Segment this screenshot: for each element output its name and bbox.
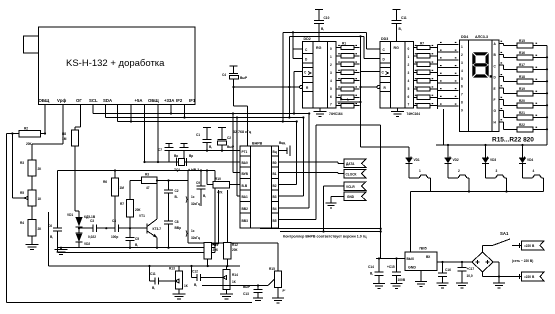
svg-text:С7: С7 <box>158 148 162 152</box>
svg-text:4: 4 <box>533 169 535 173</box>
svg-text:ОБЩ: ОБЩ <box>148 98 159 103</box>
svg-text:0,022: 0,022 <box>88 235 96 239</box>
svg-text:6: 6 <box>408 95 410 99</box>
svg-text:+ НР-2: + НР-2 <box>188 168 199 172</box>
svg-text:ВВр: ВВр <box>175 226 182 230</box>
svg-text:IF2: IF2 <box>176 98 183 103</box>
svg-text:С13: С13 <box>243 292 249 296</box>
svg-text:5: 5 <box>461 77 463 81</box>
svg-text:R20: R20 <box>519 99 525 103</box>
svg-text:100р: 100р <box>111 235 118 239</box>
svg-text:VT1: VT1 <box>139 214 145 218</box>
svg-text:В,: В, <box>209 145 212 149</box>
svg-text:R7: R7 <box>420 41 424 45</box>
svg-text:ДАТА: ДАТА <box>346 162 355 166</box>
svg-text:В3: В3 <box>273 195 277 199</box>
svg-text:20К: 20К <box>232 248 238 252</box>
svg-text:С14: С14 <box>368 265 374 269</box>
svg-text:ВыР: ВыР <box>227 145 235 149</box>
svg-text:R10: R10 <box>215 177 221 181</box>
svg-text:1М: 1М <box>62 137 67 141</box>
svg-text:ВЫХ: ВЫХ <box>407 257 415 261</box>
svg-text:2: 2 <box>330 63 332 67</box>
svg-text:ОБЩ: ОБЩ <box>39 98 50 103</box>
svg-text:С12: С12 <box>192 270 198 274</box>
svg-text:4: 4 <box>330 79 332 83</box>
svg-text:R22: R22 <box>519 123 525 127</box>
svg-text:1с: 1с <box>191 195 195 199</box>
svg-text:R8: R8 <box>62 132 66 136</box>
svg-text:КТ3-7: КТ3-7 <box>153 227 162 231</box>
svg-text:47К: 47К <box>217 191 223 195</box>
svg-text:6: 6 <box>461 85 463 89</box>
svg-text:VD4: VD4 <box>527 158 533 162</box>
svg-text:ОГ: ОГ <box>76 98 82 103</box>
svg-text:10,0: 10,0 <box>467 274 473 278</box>
svg-text:(сеть ~ 220 В): (сеть ~ 220 В) <box>512 259 533 263</box>
svg-text:VD1: VD1 <box>414 158 420 162</box>
svg-text:СLОСК: СLОСК <box>346 172 357 176</box>
svg-text:VD2: VD2 <box>453 158 459 162</box>
svg-text:VСLR: VСLR <box>346 185 355 189</box>
svg-text:R7: R7 <box>120 202 124 206</box>
svg-text:3: 3 <box>461 61 463 65</box>
svg-text:С8: С8 <box>175 220 179 224</box>
svg-text:0: 0 <box>330 47 332 51</box>
svg-text:7: 7 <box>461 93 463 97</box>
svg-text:С9: С9 <box>196 181 200 185</box>
svg-text:R6: R6 <box>103 180 107 184</box>
svg-text:Контроллер ВНРВ соответствует: Контроллер ВНРВ соответствует версии 1.0… <box>283 235 367 239</box>
svg-text:SCL: SCL <box>89 98 98 103</box>
svg-text:С2: С2 <box>227 136 231 140</box>
svg-text:3: 3 <box>408 71 410 75</box>
svg-text:4: 4 <box>461 69 463 73</box>
svg-text:3: 3 <box>496 169 498 173</box>
svg-text:С11: С11 <box>150 272 156 276</box>
svg-text:DD3: DD3 <box>381 37 388 41</box>
svg-text:1: 1 <box>330 55 332 59</box>
svg-text:R13: R13 <box>169 267 175 271</box>
svg-text:VD3: VD3 <box>490 158 496 162</box>
svg-text:R15: R15 <box>269 267 275 271</box>
svg-text:+С15: +С15 <box>387 265 395 269</box>
svg-text:В,: В, <box>399 27 402 31</box>
svg-text:1М: 1М <box>120 186 125 190</box>
svg-text:1К: 1К <box>184 284 188 288</box>
svg-text:1К: 1К <box>232 280 236 284</box>
svg-text:1: 1 <box>461 45 463 49</box>
svg-text:С4: С4 <box>222 73 226 77</box>
svg-text:ВУВ: ВУВ <box>242 172 249 176</box>
svg-text:0: 0 <box>408 47 410 51</box>
svg-text:R17: R17 <box>519 63 525 67</box>
svg-text:32кГц: 32кГц <box>191 202 200 206</box>
svg-text:SА1: SА1 <box>500 231 509 236</box>
svg-text:С2: С2 <box>175 189 179 193</box>
svg-text:R18: R18 <box>519 75 525 79</box>
svg-text:ВА1: ВА1 <box>242 195 248 199</box>
svg-text:≈220 В: ≈220 В <box>524 244 535 248</box>
svg-text:Р': Р' <box>283 289 286 293</box>
svg-text:32кГц: 32кГц <box>191 236 200 240</box>
svg-text:В,: В, <box>135 243 138 247</box>
svg-text:≈220 В: ≈220 В <box>524 275 535 279</box>
svg-text:В,: В, <box>203 194 206 198</box>
svg-text:С5: С5 <box>135 237 139 241</box>
svg-text:В-В: В-В <box>242 184 248 188</box>
svg-text:6: 6 <box>330 95 332 99</box>
svg-text:2: 2 <box>408 63 410 67</box>
svg-text:R3: R3 <box>20 161 24 165</box>
svg-text:32 768 кГц: 32 768 кГц <box>233 130 252 134</box>
svg-text:20К: 20К <box>213 248 219 252</box>
svg-text:F: F <box>494 98 496 102</box>
svg-text:ВНРВ: ВНРВ <box>252 142 263 146</box>
svg-text:2К: 2К <box>38 167 42 171</box>
svg-text:R2: R2 <box>24 127 28 131</box>
svg-text:АЛС3-3: АЛС3-3 <box>475 35 488 39</box>
svg-text:RG: RG <box>316 46 322 50</box>
svg-text:L: L <box>347 98 349 102</box>
svg-text:5: 5 <box>408 87 410 91</box>
svg-text:20К: 20К <box>26 142 32 146</box>
svg-text:2: 2 <box>458 169 460 173</box>
svg-text:С11: С11 <box>401 16 407 20</box>
svg-text:DD4: DD4 <box>461 35 468 39</box>
svg-text:Вц: Вц <box>273 150 277 154</box>
svg-text:100В: 100В <box>398 278 406 282</box>
svg-text:ZQ1: ZQ1 <box>174 168 180 172</box>
svg-text:С16: С16 <box>445 268 451 272</box>
svg-text:R4: R4 <box>20 221 24 225</box>
svg-text:2К: 2К <box>38 227 42 231</box>
svg-text:GND: GND <box>347 195 355 199</box>
svg-text:47: 47 <box>146 186 150 190</box>
svg-text:R15...R22 820: R15...R22 820 <box>492 137 534 144</box>
svg-text:ВА0: ВА0 <box>242 161 248 165</box>
svg-text:VD1: VD1 <box>67 213 73 217</box>
svg-text:В2: В2 <box>273 184 277 188</box>
svg-text:В,: В, <box>152 286 155 290</box>
svg-text:В,: В, <box>194 283 197 287</box>
svg-text:74НС164: 74НС164 <box>407 112 421 116</box>
svg-text:2: 2 <box>461 53 463 57</box>
svg-text:7: 7 <box>408 103 410 107</box>
svg-text:R19: R19 <box>519 87 525 91</box>
svg-text:В0: В0 <box>273 161 277 165</box>
svg-text:ВВ2: ВВ2 <box>242 207 249 211</box>
svg-text:В1: В1 <box>273 172 277 176</box>
svg-text:С1: С1 <box>196 133 200 137</box>
svg-text:9: 9 <box>461 109 463 113</box>
svg-text:7: 7 <box>330 103 332 107</box>
svg-text:1: 1 <box>408 55 410 59</box>
svg-text:В,: В, <box>321 27 324 31</box>
svg-text:4: 4 <box>408 79 410 83</box>
svg-text:3: 3 <box>330 71 332 75</box>
svg-text:GND: GND <box>408 266 416 270</box>
svg-text:С4: С4 <box>112 219 116 223</box>
svg-text:SDA: SDA <box>103 98 112 103</box>
svg-text:KS-H-132 + доработка: KS-H-132 + доработка <box>66 58 165 69</box>
svg-text:+5А: +5А <box>135 98 143 103</box>
svg-text:R12: R12 <box>232 243 238 247</box>
svg-text:+С17: +С17 <box>467 267 475 271</box>
svg-text:1с: 1с <box>191 229 195 233</box>
svg-text:ВВ3: ВВ3 <box>242 219 249 223</box>
svg-text:1: 1 <box>419 169 421 173</box>
svg-text:+33А: +33А <box>164 98 174 103</box>
svg-text:R14: R14 <box>232 273 238 277</box>
svg-text:Вр: Вр <box>174 154 178 158</box>
svg-text:В4: В4 <box>273 207 277 211</box>
svg-text:Вр: Вр <box>189 154 193 158</box>
svg-text:ВыР: ВыР <box>240 76 248 80</box>
svg-text:R1: R1 <box>342 41 346 45</box>
svg-text:DD2: DD2 <box>304 37 311 41</box>
svg-text:Вцц: Вцц <box>279 141 285 145</box>
svg-text:R15: R15 <box>519 39 525 43</box>
svg-text:Е: Е <box>494 87 496 91</box>
svg-text:РТ1: РТ1 <box>242 150 248 154</box>
svg-text:IF1: IF1 <box>189 98 196 103</box>
svg-text:ВыР: ВыР <box>243 285 251 289</box>
svg-text:74НС164: 74НС164 <box>329 112 343 116</box>
svg-text:20К: 20К <box>135 208 141 212</box>
svg-text:С3: С3 <box>90 219 94 223</box>
svg-text:В-: В- <box>175 195 178 199</box>
svg-text:В5: В5 <box>273 219 277 223</box>
svg-text:В,: В, <box>370 272 373 276</box>
svg-text:VD2: VD2 <box>84 242 90 246</box>
svg-text:R11: R11 <box>213 243 219 247</box>
svg-text:С10: С10 <box>324 16 330 20</box>
svg-text:В,: В, <box>50 235 53 239</box>
svg-text:7В05: 7В05 <box>419 247 427 251</box>
svg-text:1К: 1К <box>38 197 42 201</box>
svg-text:R5: R5 <box>20 191 24 195</box>
svg-text:8: 8 <box>461 101 463 105</box>
svg-text:5: 5 <box>330 87 332 91</box>
svg-text:R16: R16 <box>519 51 525 55</box>
svg-text:Vрф: Vрф <box>57 98 66 103</box>
svg-text:RG: RG <box>394 46 400 50</box>
svg-text:R21: R21 <box>519 111 525 115</box>
svg-text:R3: R3 <box>145 173 149 177</box>
